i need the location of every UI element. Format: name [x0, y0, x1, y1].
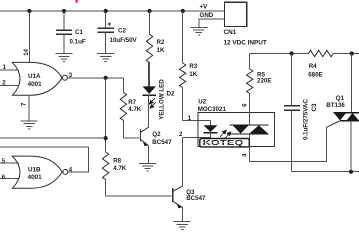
gate U1B 4001 — [12, 156, 68, 188]
svg-text:Q2: Q2 — [152, 131, 161, 138]
svg-text:10uF/50V: 10uF/50V — [110, 37, 138, 44]
ground C2 — [97, 54, 114, 62]
svg-text:0.1uF/275VAC: 0.1uF/275VAC — [302, 99, 309, 140]
pin 6 wire U1B — [0, 178, 19, 180]
svg-text:CN1: CN1 — [224, 29, 237, 36]
wire Q3 collector to opto pin2 — [183, 136, 211, 138]
svg-text:220E: 220E — [257, 78, 271, 85]
svg-text:GND: GND — [200, 12, 214, 19]
resistor R4 — [308, 50, 333, 78]
resistor R7 — [120, 78, 142, 138]
node MT1 junction — [349, 170, 353, 174]
opto emission arrows — [220, 130, 231, 138]
svg-text:BT136: BT136 — [326, 102, 345, 109]
transistor Q3 BC547 — [173, 137, 206, 221]
svg-text:+V: +V — [200, 4, 209, 11]
node C1 junction — [62, 9, 66, 13]
svg-text:4001: 4001 — [28, 81, 43, 88]
opto pin4 wire internal — [249, 134, 251, 147]
wire top +V rail — [0, 10, 225, 12]
opto internal triac — [229, 125, 268, 134]
LED D2 — [143, 63, 175, 128]
svg-text:C3: C3 — [311, 103, 318, 111]
wire GND to CN1 — [199, 19, 225, 27]
svg-text:4001: 4001 — [28, 174, 43, 181]
node C3 top junction — [290, 51, 294, 55]
triac Q1 BT136 — [326, 54, 359, 172]
opto internal LED — [204, 121, 218, 138]
pin 7 wire U1A — [28, 95, 30, 120]
opto pin6 wire — [249, 112, 251, 125]
svg-text:BC547: BC547 — [152, 139, 172, 146]
wire R8 to Q3 base — [106, 195, 172, 197]
KOTEQ logo — [200, 139, 250, 147]
wire R3 to opto pin1 — [183, 120, 211, 122]
svg-text:12 VDC INPUT: 12 VDC INPUT — [224, 40, 267, 47]
node R3 junction — [181, 9, 185, 13]
connector CN1 — [225, 2, 247, 26]
ground C1 — [56, 54, 73, 62]
svg-text:MOC3021: MOC3021 — [198, 106, 227, 113]
pink artifact top edge — [75, 0, 78, 3]
ground Q2 — [139, 163, 156, 171]
svg-text:KOTEQ: KOTEQ — [203, 139, 244, 146]
pin 5 wire U1B — [0, 162, 19, 164]
svg-text:0.1uF: 0.1uF — [70, 38, 86, 45]
wire triac gate — [327, 121, 340, 127]
resistor R3 — [179, 11, 197, 121]
svg-text:YELLOW LED: YELLOW LED — [159, 79, 166, 120]
resistor R2 — [146, 11, 165, 86]
svg-text:R8: R8 — [113, 157, 121, 164]
node C2 junction — [104, 9, 108, 13]
wire AC top — [250, 53, 309, 55]
svg-text:R3: R3 — [189, 63, 197, 70]
svg-text:U1B: U1B — [28, 166, 41, 173]
svg-text:4.7K: 4.7K — [113, 165, 127, 172]
svg-text:R2: R2 — [157, 39, 165, 46]
svg-text:680E: 680E — [308, 72, 322, 79]
pin 14 wire U1A — [28, 11, 30, 63]
svg-text:1K: 1K — [157, 47, 165, 54]
wire left feed y138 — [0, 137, 106, 139]
svg-text:U1A: U1A — [28, 73, 41, 80]
node pin3 junction — [104, 76, 108, 80]
ground CN1 — [190, 27, 207, 35]
pin 2 wire U1A — [0, 85, 19, 87]
svg-text:D2: D2 — [167, 91, 175, 98]
svg-text:BC547: BC547 — [186, 195, 206, 202]
wire pin3 junction down — [105, 78, 107, 152]
node MT2 junction — [350, 51, 354, 55]
svg-text:1K: 1K — [189, 71, 197, 78]
svg-text:4.7K: 4.7K — [128, 106, 142, 113]
wire U1A pin3 output — [67, 77, 123, 79]
svg-text:Q1: Q1 — [336, 95, 345, 102]
svg-text:C2: C2 — [118, 28, 126, 35]
node R2 junction — [147, 9, 151, 13]
resistor R8 — [102, 152, 126, 196]
resistor R5 — [247, 54, 272, 113]
wire R7 to Q2 base — [123, 137, 139, 139]
svg-text:R7: R7 — [128, 99, 136, 106]
wire U1B pin4 feedback loop — [0, 147, 89, 172]
capacitor C2 electrolytic — [98, 11, 138, 53]
pin 1 wire U1A — [0, 69, 19, 71]
capacitor C1 — [56, 11, 86, 53]
wire C3 bottom to right edge — [292, 171, 359, 173]
node pin14 junction — [27, 9, 31, 13]
svg-text:14: 14 — [24, 48, 30, 55]
ground U1A pin7 — [21, 121, 38, 129]
capacitor C3 — [284, 54, 318, 172]
opto U2 MOC3021 box — [198, 112, 275, 146]
svg-text:R4: R4 — [309, 63, 317, 70]
svg-text:C1: C1 — [75, 29, 83, 36]
wire opto pin4 — [249, 147, 251, 162]
ground Q3 — [174, 222, 191, 230]
transistor Q2 BC547 — [140, 127, 172, 163]
svg-text:U2: U2 — [198, 98, 206, 105]
node base-feed junction — [104, 136, 108, 140]
gate U1A 4001 — [12, 62, 67, 95]
